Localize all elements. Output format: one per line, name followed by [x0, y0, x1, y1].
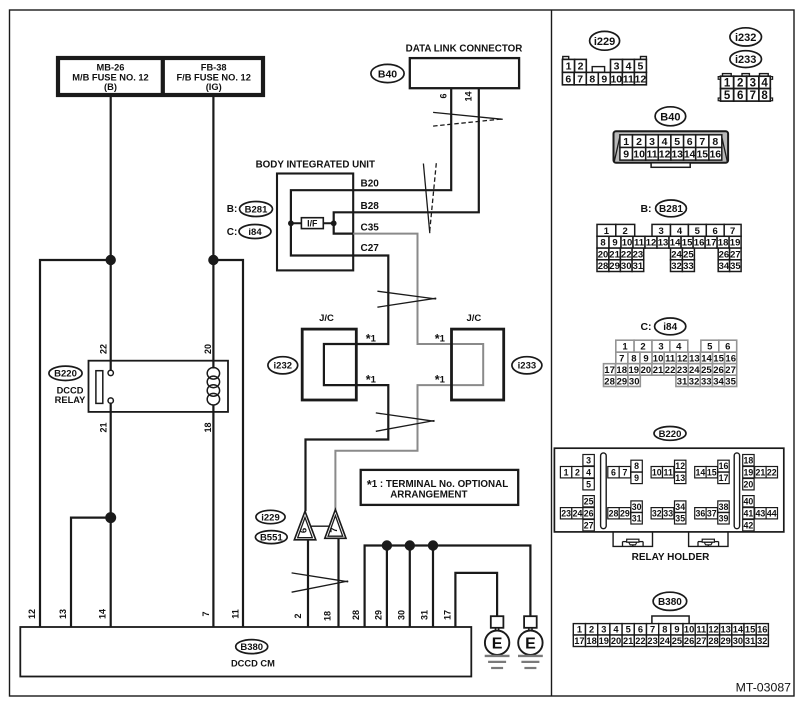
svg-text:29: 29	[721, 636, 731, 646]
svg-text:DCCD CM: DCCD CM	[231, 659, 275, 669]
wire branch to DCCD CM pin 11	[213, 260, 243, 627]
svg-text:39: 39	[719, 514, 729, 524]
junction connector box i232	[302, 329, 356, 400]
svg-text:38: 38	[719, 502, 729, 512]
ground E (left)	[485, 616, 510, 668]
svg-text:32: 32	[689, 376, 700, 387]
svg-text:6: 6	[725, 342, 730, 353]
svg-text:B551: B551	[260, 533, 283, 544]
svg-text:15: 15	[696, 149, 708, 161]
svg-text:*1: *1	[366, 373, 377, 387]
svg-text:5: 5	[724, 90, 731, 102]
fuse FB-38 label	[177, 62, 251, 92]
svg-text:2: 2	[575, 467, 580, 477]
svg-text:32: 32	[671, 261, 682, 272]
svg-text:3: 3	[750, 78, 756, 90]
svg-text:30: 30	[629, 376, 640, 387]
svg-text:5: 5	[626, 625, 631, 635]
oval connector label B281 (pinout) with B: prefix	[640, 200, 686, 217]
svg-text:ARRANGEMENT: ARRANGEMENT	[390, 490, 467, 501]
connector pinout B281	[597, 224, 741, 272]
svg-text:i84: i84	[248, 227, 262, 238]
svg-text:24: 24	[573, 508, 583, 518]
svg-text:19: 19	[599, 636, 609, 646]
wire from relay contact 21 to DCCD CM pin 14	[110, 403, 112, 627]
svg-text:18: 18	[718, 238, 729, 249]
svg-text:17: 17	[719, 473, 729, 483]
relay coil	[207, 368, 219, 406]
svg-text:18: 18	[323, 611, 333, 621]
svg-text:13: 13	[721, 625, 731, 635]
svg-text:27: 27	[730, 249, 741, 260]
body integrated unit box	[277, 174, 353, 271]
oval connector label B380 (DCCD CM)	[236, 640, 268, 654]
svg-text:F/B FUSE NO. 12: F/B FUSE NO. 12	[177, 72, 251, 82]
svg-text:i229: i229	[594, 36, 615, 48]
svg-text:MB-26: MB-26	[97, 62, 125, 72]
wire from relay coil 18 to DCCD CM pin 7	[212, 405, 214, 627]
svg-text:B40: B40	[660, 111, 680, 123]
svg-text:37: 37	[707, 508, 717, 518]
svg-text:7: 7	[699, 136, 705, 148]
svg-text:J/C: J/C	[319, 313, 334, 324]
svg-text:5: 5	[695, 226, 701, 237]
oval connector label i229 (triangles)	[256, 510, 285, 523]
svg-text:8: 8	[662, 625, 667, 635]
svg-text:4: 4	[626, 61, 632, 73]
junction node pin 30	[405, 540, 415, 550]
svg-text:3: 3	[601, 625, 606, 635]
svg-text:30: 30	[632, 502, 642, 512]
junction node pin 29	[382, 540, 392, 550]
wire triangle 7 to DCCD CM pin 18	[337, 538, 339, 627]
svg-text:C:: C:	[227, 227, 238, 238]
svg-text:9: 9	[674, 625, 679, 635]
svg-text:14: 14	[701, 353, 712, 364]
svg-text:22: 22	[99, 344, 109, 354]
data link connector box	[410, 58, 519, 88]
svg-text:1: 1	[566, 61, 572, 73]
svg-text:2: 2	[578, 61, 584, 73]
wire pin 17 to ground	[455, 573, 497, 627]
svg-text:5: 5	[674, 136, 680, 148]
svg-text:(B): (B)	[104, 82, 117, 92]
svg-text:16: 16	[694, 238, 705, 249]
oval connector label B40 (pinout)	[655, 107, 686, 126]
svg-text:1: 1	[577, 625, 582, 635]
svg-text:i233: i233	[735, 54, 756, 66]
svg-text:DATA LINK CONNECTOR: DATA LINK CONNECTOR	[406, 44, 523, 55]
svg-text:10: 10	[633, 149, 645, 161]
svg-text:C27: C27	[361, 243, 380, 254]
svg-text:29: 29	[374, 610, 384, 620]
svg-text:31: 31	[633, 261, 644, 272]
svg-text:6: 6	[565, 73, 571, 85]
svg-text:44: 44	[767, 508, 777, 518]
svg-text:34: 34	[675, 502, 685, 512]
svg-text:7: 7	[622, 467, 627, 477]
svg-text:31: 31	[632, 514, 642, 524]
svg-text:14: 14	[733, 625, 744, 635]
svg-text:B380: B380	[240, 642, 263, 653]
svg-text:7: 7	[201, 611, 211, 616]
svg-text:27: 27	[696, 636, 706, 646]
I/F interface box	[301, 218, 323, 229]
svg-text:43: 43	[756, 508, 766, 518]
svg-text:12: 12	[27, 609, 37, 619]
harness crossing mark (above J/C)	[377, 291, 436, 299]
svg-text:28: 28	[598, 261, 609, 272]
harness crossing mark (below J/C)	[376, 413, 435, 421]
shield connector triangle 6	[294, 511, 316, 540]
svg-text:B220: B220	[659, 429, 682, 440]
relay B220 box	[89, 361, 229, 412]
svg-text:18: 18	[616, 365, 627, 376]
svg-text:27: 27	[584, 520, 594, 530]
svg-text:E: E	[525, 635, 536, 652]
svg-text:5: 5	[707, 342, 713, 353]
oval connector label B40 (data link)	[371, 64, 404, 82]
unit internal wire B20-C27 loop	[291, 190, 353, 255]
fuse MB-26 label	[72, 62, 148, 92]
svg-text:B220: B220	[54, 369, 77, 380]
svg-text:22: 22	[621, 249, 632, 260]
svg-text:30: 30	[621, 261, 632, 272]
svg-text:*1: *1	[435, 373, 446, 387]
wire pin 31	[432, 546, 434, 628]
svg-text:2: 2	[293, 613, 303, 618]
column divider line	[551, 10, 553, 696]
svg-text:2: 2	[737, 78, 743, 90]
wire triangle 6 to DCCD CM pin 2	[307, 540, 309, 627]
svg-text:34: 34	[719, 261, 730, 272]
svg-text:9: 9	[643, 353, 648, 364]
svg-text:8: 8	[634, 461, 639, 471]
oval connector label B220 (relay)	[49, 366, 82, 380]
svg-text:3: 3	[658, 342, 663, 353]
oval connector label i232	[268, 357, 298, 374]
wire branch to DCCD CM pin 12	[40, 260, 111, 627]
svg-text:21: 21	[653, 365, 664, 376]
wire DLC pin 14 to unit B28	[353, 88, 479, 212]
fuse box MB-26 / FB-38	[58, 58, 263, 95]
svg-text:2: 2	[589, 625, 594, 635]
oval connector label i233	[512, 357, 542, 374]
svg-text:5: 5	[586, 479, 591, 489]
svg-text:24: 24	[660, 636, 671, 646]
svg-text:14: 14	[696, 467, 706, 477]
svg-text:26: 26	[684, 636, 694, 646]
svg-text:32: 32	[757, 636, 767, 646]
svg-text:2: 2	[640, 342, 645, 353]
svg-text:B380: B380	[658, 597, 682, 608]
svg-text:17: 17	[443, 610, 453, 620]
svg-text:11: 11	[664, 467, 673, 477]
svg-text:25: 25	[672, 636, 682, 646]
svg-text:35: 35	[675, 514, 685, 524]
svg-text:J/C: J/C	[467, 313, 482, 324]
svg-text:23: 23	[677, 365, 688, 376]
svg-text:26: 26	[584, 508, 594, 518]
svg-text:22: 22	[767, 467, 777, 477]
svg-text:23: 23	[633, 249, 644, 260]
oval connector label B380 (pinout)	[653, 592, 687, 610]
svg-text:31: 31	[677, 376, 688, 387]
svg-text:18: 18	[744, 455, 754, 465]
svg-text:16: 16	[709, 149, 721, 161]
svg-text:26: 26	[713, 365, 724, 376]
ground E (right)	[518, 616, 543, 668]
svg-text:3: 3	[586, 455, 591, 465]
svg-text:RELAY HOLDER: RELAY HOLDER	[632, 552, 711, 563]
svg-text:16: 16	[719, 461, 729, 471]
DCCD RELAY caption	[55, 386, 86, 406]
svg-text:i232: i232	[735, 32, 756, 44]
wire pin 29	[386, 546, 388, 628]
svg-text:34: 34	[713, 376, 724, 387]
svg-text:12: 12	[659, 149, 671, 161]
oval connector label i233 (pinout)	[730, 51, 762, 68]
wire pin 30	[409, 546, 411, 628]
svg-text:B28: B28	[361, 201, 380, 212]
svg-text:7: 7	[650, 625, 655, 635]
svg-text:BODY INTEGRATED UNIT: BODY INTEGRATED UNIT	[256, 160, 375, 171]
svg-text:19: 19	[730, 238, 741, 249]
svg-text:5: 5	[637, 61, 643, 73]
svg-text:7: 7	[730, 226, 735, 237]
svg-text:31: 31	[420, 610, 430, 620]
svg-text:24: 24	[689, 365, 700, 376]
oval connector label B281 with B: prefix	[227, 202, 273, 217]
svg-text:25: 25	[584, 496, 594, 506]
wire branch to DCCD CM pin 13	[71, 518, 111, 627]
svg-text:11: 11	[646, 149, 657, 161]
connector pinout B40	[614, 131, 729, 167]
junction node on wire 20	[208, 255, 218, 265]
svg-text:B:: B:	[640, 203, 651, 215]
svg-text:I/F: I/F	[307, 218, 318, 228]
svg-text:6: 6	[611, 467, 616, 477]
svg-text:6: 6	[687, 136, 693, 148]
svg-text:23: 23	[561, 508, 571, 518]
svg-text:25: 25	[701, 365, 712, 376]
svg-text:16: 16	[725, 353, 736, 364]
svg-text:14: 14	[98, 609, 108, 619]
svg-text:12: 12	[646, 238, 657, 249]
svg-text:10: 10	[652, 467, 662, 477]
svg-text:6: 6	[299, 528, 310, 533]
svg-text:21: 21	[623, 636, 633, 646]
svg-text:3: 3	[614, 61, 620, 73]
svg-text:21: 21	[99, 422, 109, 432]
svg-text:3: 3	[649, 136, 655, 148]
svg-text:42: 42	[744, 520, 754, 530]
wire DLC pin 6 to unit B20	[353, 88, 451, 190]
harness crossing mark (on B20/B28 wires)	[423, 164, 429, 234]
svg-text:22: 22	[665, 365, 676, 376]
svg-text:i233: i233	[518, 361, 537, 372]
svg-text:1: 1	[724, 78, 731, 90]
svg-text:27: 27	[725, 365, 736, 376]
svg-text:20: 20	[611, 636, 621, 646]
svg-text:30: 30	[733, 636, 743, 646]
svg-text:(IG): (IG)	[206, 82, 222, 92]
svg-text:6: 6	[713, 226, 718, 237]
unit internal I/F link wire	[291, 222, 334, 224]
svg-text:20: 20	[598, 249, 609, 260]
svg-text:1: 1	[622, 342, 628, 353]
svg-text:23: 23	[647, 636, 657, 646]
link line between triangles	[311, 525, 329, 527]
svg-text:11: 11	[665, 353, 676, 364]
svg-text:15: 15	[745, 625, 755, 635]
svg-text:28: 28	[609, 508, 619, 518]
svg-text:DCCD: DCCD	[57, 386, 84, 396]
junction node pin 31	[428, 540, 438, 550]
svg-text:12: 12	[708, 625, 718, 635]
svg-text:6: 6	[737, 90, 743, 102]
svg-text:15: 15	[707, 467, 717, 477]
oval connector label i84 (pinout) with C: prefix	[640, 318, 685, 335]
svg-text:14: 14	[684, 149, 696, 161]
svg-text:35: 35	[730, 261, 741, 272]
svg-text:20: 20	[744, 479, 754, 489]
svg-text:i232: i232	[274, 361, 293, 372]
svg-text:M/B FUSE NO. 12: M/B FUSE NO. 12	[72, 72, 148, 82]
svg-text:11: 11	[634, 238, 645, 249]
relay contact point bottom	[108, 398, 113, 403]
svg-text:1: 1	[564, 467, 569, 477]
svg-text:17: 17	[604, 365, 615, 376]
svg-text:29: 29	[620, 508, 630, 518]
svg-text:6: 6	[439, 93, 449, 98]
svg-text:10: 10	[684, 625, 694, 635]
svg-text:29: 29	[609, 261, 620, 272]
note box *1 TERMINAL No. OPTIONAL ARRANGEMENT	[361, 470, 519, 505]
svg-text:C:: C:	[640, 321, 651, 333]
svg-text:13: 13	[58, 609, 68, 619]
svg-text:13: 13	[671, 149, 683, 161]
connector pinout B220 relay holder	[554, 448, 783, 532]
harness crossing mark (on wires 2/18)	[292, 573, 349, 582]
svg-text:4: 4	[662, 136, 668, 148]
svg-text:4: 4	[761, 78, 768, 90]
svg-text:C35: C35	[361, 222, 380, 233]
relay contact bar	[96, 371, 103, 404]
svg-text:13: 13	[675, 473, 685, 483]
svg-text:B40: B40	[378, 68, 397, 80]
svg-text:9: 9	[623, 149, 629, 161]
svg-text:32: 32	[652, 508, 662, 518]
svg-text:9: 9	[601, 73, 607, 85]
wire C35 (gray) from unit to right J/C	[335, 234, 483, 510]
svg-text:10: 10	[610, 73, 622, 85]
svg-text:14: 14	[670, 238, 681, 249]
svg-text:33: 33	[663, 508, 673, 518]
svg-text:25: 25	[683, 249, 694, 260]
svg-text:B:: B:	[227, 204, 238, 215]
wire from MB-26 fuse to DCCD relay terminal 22	[110, 97, 112, 371]
svg-text:33: 33	[701, 376, 712, 387]
svg-text:18: 18	[586, 636, 596, 646]
svg-text:9: 9	[612, 238, 617, 249]
relay holder mounting tab left	[613, 532, 652, 547]
svg-text:*1: *1	[435, 332, 446, 346]
connector pinout i84	[604, 340, 737, 387]
svg-text:8: 8	[712, 136, 718, 148]
oval connector label B220 (pinout)	[654, 427, 686, 441]
wire C27 from unit to left J/C	[306, 256, 389, 512]
svg-text:E: E	[492, 635, 503, 652]
svg-text:i84: i84	[663, 322, 677, 333]
svg-text:3: 3	[659, 226, 664, 237]
svg-text:17: 17	[706, 238, 717, 249]
junction node on wire 22	[106, 255, 116, 265]
svg-text:*1: *1	[366, 332, 377, 346]
svg-text:41: 41	[744, 508, 754, 518]
svg-text:6: 6	[638, 625, 643, 635]
svg-text:28: 28	[604, 376, 615, 387]
connector pinout B380	[573, 616, 768, 647]
svg-text:15: 15	[682, 238, 693, 249]
svg-text:19: 19	[744, 467, 754, 477]
svg-text:11: 11	[696, 625, 706, 635]
svg-text:4: 4	[613, 625, 619, 635]
svg-text:RELAY: RELAY	[55, 395, 86, 405]
svg-text:B20: B20	[361, 179, 380, 190]
svg-text:21: 21	[609, 249, 620, 260]
relay contact point top	[108, 370, 113, 375]
svg-text:10: 10	[653, 353, 664, 364]
svg-text:14: 14	[464, 91, 474, 101]
svg-text:17: 17	[574, 636, 584, 646]
svg-text:B281: B281	[659, 204, 683, 215]
svg-text:36: 36	[696, 508, 706, 518]
oval connector label B551	[255, 531, 287, 544]
svg-text:18: 18	[203, 422, 213, 432]
svg-text:24: 24	[671, 249, 682, 260]
svg-text:20: 20	[203, 344, 213, 354]
svg-text:7: 7	[750, 90, 756, 102]
svg-text:30: 30	[397, 610, 407, 620]
svg-text:12: 12	[635, 73, 647, 85]
svg-text:1: 1	[623, 136, 629, 148]
svg-text:15: 15	[713, 353, 724, 364]
wire from FB-38 fuse to DCCD relay coil terminal 20	[212, 97, 214, 369]
svg-text:4: 4	[586, 467, 591, 477]
node right of I/F	[331, 220, 337, 226]
svg-text:31: 31	[745, 636, 755, 646]
junction connector box i233	[452, 329, 504, 400]
fuse box divider	[161, 58, 165, 95]
svg-text:7: 7	[619, 353, 624, 364]
relay holder mounting tab right	[689, 532, 728, 547]
harness crossing mark (below DLC)	[433, 112, 503, 119]
svg-text:FB-38: FB-38	[201, 62, 227, 72]
ground bus wire	[365, 546, 531, 628]
svg-text:19: 19	[629, 365, 640, 376]
svg-text:7: 7	[577, 73, 583, 85]
svg-text:28: 28	[351, 610, 361, 620]
svg-text:2: 2	[636, 136, 642, 148]
svg-text:28: 28	[708, 636, 718, 646]
connector pinout i229	[562, 57, 646, 86]
svg-text:12: 12	[675, 461, 685, 471]
svg-text:7: 7	[329, 527, 340, 532]
svg-text:12: 12	[677, 353, 688, 364]
svg-text:4: 4	[677, 226, 683, 237]
oval connector label i229 (pinout)	[590, 31, 620, 50]
